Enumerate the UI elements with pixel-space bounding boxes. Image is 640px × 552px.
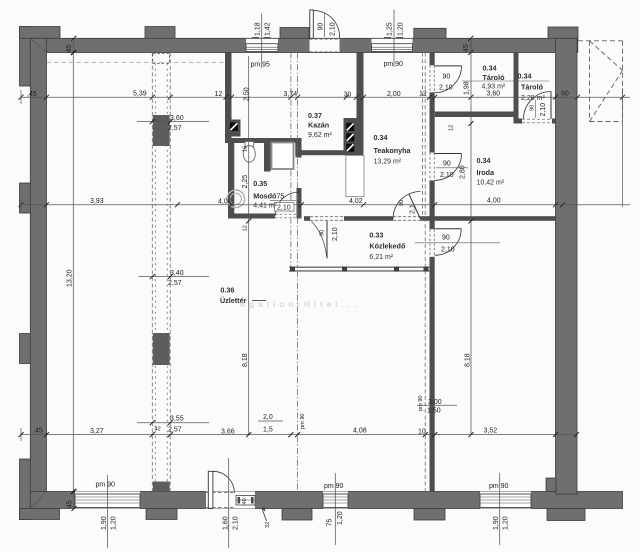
wall mosdo right lower <box>297 188 302 219</box>
partition wall x430 segment2 <box>430 92 435 152</box>
window pm90 top wall <box>372 39 413 52</box>
svg-text:45: 45 <box>463 44 470 52</box>
svg-text:Tároló: Tároló <box>521 83 544 92</box>
svg-text:42: 42 <box>155 427 161 433</box>
svg-text:1,20: 1,20 <box>398 22 405 36</box>
svg-text:13,29 m²: 13,29 m² <box>374 159 402 166</box>
corner miter top-left <box>30 38 46 52</box>
room label teakonyha <box>374 133 412 166</box>
svg-text:90: 90 <box>530 105 536 111</box>
window A bottom wall <box>75 492 140 509</box>
svg-text:2,10: 2,10 <box>233 516 240 530</box>
door tarolo2 leaf <box>550 92 552 120</box>
door teakonyha labels rotated <box>399 200 417 214</box>
svg-text:32: 32 <box>265 522 271 528</box>
svg-text:pm 90: pm 90 <box>300 413 306 429</box>
svg-text:Tároló: Tároló <box>483 73 506 82</box>
svg-text:2,10: 2,10 <box>440 172 454 179</box>
window C centerline and labels <box>489 473 510 545</box>
door entrance arc <box>213 471 235 493</box>
svg-text:4,93 m²: 4,93 m² <box>482 84 506 91</box>
svg-text:1,20: 1,20 <box>111 516 118 530</box>
door kozlekedo labels rotated <box>320 227 340 241</box>
svg-text:1,20: 1,20 <box>337 511 344 525</box>
grid column filled bottom <box>153 482 170 492</box>
door kazan labels rotated <box>318 13 337 37</box>
door kazan exterior leaf <box>310 10 314 38</box>
door mosdo arc <box>276 192 300 216</box>
wall top exterior <box>30 38 578 52</box>
pilaster top pier3 <box>414 28 446 39</box>
door iroda arc <box>435 154 462 181</box>
door tarolo2 arc <box>524 92 552 120</box>
svg-text:3,66: 3,66 <box>221 429 235 436</box>
door tarolo1 arc <box>435 66 462 93</box>
svg-text:1,18: 1,18 <box>255 22 262 36</box>
ticks on y204.7 <box>19 202 566 207</box>
entrance opening bottom wall <box>206 492 236 509</box>
washbasin <box>227 190 245 208</box>
svg-text:9,62 m²: 9,62 m² <box>308 132 332 139</box>
wall bottom exterior <box>30 492 622 509</box>
vertical dim 8,18 right <box>465 38 474 437</box>
svg-text:90: 90 <box>318 23 325 31</box>
wall left exterior <box>30 38 46 508</box>
pilaster bottom right <box>547 509 585 521</box>
svg-text:90: 90 <box>443 74 451 81</box>
svg-text:8,18: 8,18 <box>465 353 472 367</box>
svg-text:0.34: 0.34 <box>518 72 532 81</box>
shower tray <box>272 143 294 170</box>
svg-text:2,57: 2,57 <box>168 125 182 132</box>
window A centerline and labels <box>96 475 118 548</box>
svg-text:2,57: 2,57 <box>168 426 182 433</box>
svg-text:4,00: 4,00 <box>487 198 501 205</box>
window pm95 top wall <box>246 39 278 52</box>
svg-text:2,50: 2,50 <box>244 87 251 101</box>
extension verticals bottom line <box>20 428 22 441</box>
dim texts top line <box>27 91 569 99</box>
kitchen counter <box>346 156 364 197</box>
pilaster top pier2 <box>280 28 309 39</box>
svg-text:0.35: 0.35 <box>253 179 267 188</box>
svg-text:2,25: 2,25 <box>242 175 249 189</box>
svg-text:13,20: 13,20 <box>67 269 74 287</box>
room label uzletter <box>220 286 266 306</box>
entry step arrow 32 <box>262 507 271 528</box>
window pm90 top centerline and labels <box>384 10 405 69</box>
svg-text:8,18: 8,18 <box>242 353 249 367</box>
door gap teakonyha <box>393 216 421 221</box>
pilaster bottom mid3 <box>414 509 445 521</box>
door teakonyha leaf <box>409 194 421 219</box>
svg-text:0.34: 0.34 <box>483 64 497 73</box>
svg-text:75: 75 <box>277 194 285 201</box>
door mosdo labels <box>270 194 296 212</box>
svg-text:45: 45 <box>66 45 73 53</box>
grid dashed band left x152-170 <box>152 53 170 492</box>
svg-text:12: 12 <box>449 125 455 131</box>
svg-text:3,27: 3,27 <box>90 428 104 435</box>
grid column dashed outline top <box>153 54 170 64</box>
partition wall x430 segment1 <box>430 53 435 66</box>
wall mosdo bottom <box>228 214 275 219</box>
svg-text:90: 90 <box>443 160 451 167</box>
svg-text:0.37: 0.37 <box>308 111 322 120</box>
svg-text:3,60: 3,60 <box>170 115 184 122</box>
wall mosdo right stub <box>296 138 302 158</box>
door kozlekedo leaf <box>326 221 328 259</box>
wall tarolo2 bottom <box>514 119 556 124</box>
dim pair 3,60/2,57 upper <box>137 115 209 132</box>
door tarolo1 gap <box>430 65 435 92</box>
door tarolo1 leaf <box>435 65 462 67</box>
svg-text:2,0: 2,0 <box>263 414 273 421</box>
wall tarolo2 left <box>514 53 519 124</box>
room label kozlekedo <box>369 231 406 262</box>
door corridor gap <box>430 229 435 256</box>
svg-text:0.33: 0.33 <box>369 231 383 240</box>
svg-text:1,42: 1,42 <box>265 22 272 36</box>
wall kazan left <box>225 53 232 144</box>
dim pair 3,00/1,50 partition <box>417 395 457 414</box>
window pm95 centerline and labels <box>251 14 272 69</box>
svg-text:2,28 m²: 2,28 m² <box>521 95 545 102</box>
grid dashdot pair x291 x297.5 <box>291 53 298 492</box>
door opening kazan exterior <box>310 39 340 52</box>
svg-text:75: 75 <box>327 519 334 527</box>
pilaster left mid2 <box>20 334 31 364</box>
window B bottom wall <box>323 492 348 509</box>
pilaster left mid1 <box>20 183 31 213</box>
partition wall x430 segment3 <box>430 181 435 230</box>
svg-text:3,74: 3,74 <box>284 91 298 98</box>
svg-text:2,1: 2,1 <box>410 204 417 214</box>
svg-text:1,50: 1,50 <box>427 407 441 414</box>
svg-text:pm 90: pm 90 <box>324 483 344 490</box>
door gap kozlekedo-uzletter <box>310 216 344 221</box>
svg-text:90: 90 <box>442 234 450 241</box>
entrance door centerline and labels <box>223 458 249 548</box>
wall right exterior <box>556 38 578 494</box>
svg-text:10: 10 <box>418 429 426 436</box>
svg-text:1,90: 1,90 <box>101 516 108 530</box>
svg-text:2,10: 2,10 <box>540 103 547 117</box>
svg-text:0.34: 0.34 <box>374 133 388 142</box>
svg-text:pm 90: pm 90 <box>418 395 424 411</box>
svg-text:2,57: 2,57 <box>168 280 182 287</box>
pilaster bottom mid1 <box>146 509 177 520</box>
svg-text:90: 90 <box>320 230 326 236</box>
svg-text:12: 12 <box>215 91 223 98</box>
dim texts bottom line <box>33 427 497 435</box>
door corridor arc <box>435 229 462 256</box>
wall shower stub <box>264 143 271 172</box>
room label iroda <box>477 156 505 187</box>
wall mosdo top <box>225 138 302 143</box>
svg-text:2,10: 2,10 <box>439 85 453 92</box>
door tarolo2 labels rotated <box>530 100 548 118</box>
svg-text:90: 90 <box>399 200 405 206</box>
svg-text:1,60: 1,60 <box>223 516 230 530</box>
wall kozlekedo top <box>304 216 556 221</box>
door iroda gap <box>430 153 435 181</box>
flue B square <box>230 123 238 131</box>
svg-text:,45: ,45 <box>27 91 37 98</box>
extension verticals y97 ends <box>21 88 623 207</box>
door iroda leaf <box>435 153 462 155</box>
wall mosdo left <box>228 143 234 219</box>
window C bottom wall <box>480 492 531 509</box>
door corridor leaf <box>435 228 462 230</box>
svg-text:2,10: 2,10 <box>441 247 455 254</box>
dim 45 wall left rotated <box>66 36 76 55</box>
wall right step notch <box>546 478 556 492</box>
svg-text:pm 95: pm 95 <box>251 62 271 69</box>
svg-text:60: 60 <box>561 91 569 98</box>
vertical dim 13,20 <box>67 50 76 494</box>
dashed beam line top-left <box>47 61 226 63</box>
ticks on y97 <box>19 95 626 100</box>
dim 45 wall bottom-left rotated <box>67 489 77 511</box>
svg-text:pm 90: pm 90 <box>96 482 116 489</box>
svg-text:0.34: 0.34 <box>477 156 491 165</box>
svg-text:5,39: 5,39 <box>133 91 147 98</box>
grid column filled 1 <box>153 115 170 146</box>
svg-text:Teakonyha: Teakonyha <box>374 146 412 155</box>
svg-text:1,98: 1,98 <box>464 81 471 95</box>
wall kazan bottom jog vertical <box>295 143 300 155</box>
door mosdo gap <box>275 214 297 219</box>
door gap tarolo2 bottom <box>522 119 552 124</box>
wall tarolo1 bottom <box>435 112 518 118</box>
svg-text:,45: ,45 <box>33 428 43 435</box>
dimension line top y97 <box>21 96 630 98</box>
svg-text:1,5: 1,5 <box>263 426 273 433</box>
svg-text:2,80: 2,80 <box>460 165 467 179</box>
svg-text:1,20: 1,20 <box>503 516 510 530</box>
svg-text:2,10: 2,10 <box>330 22 337 36</box>
svg-text:3,40: 3,40 <box>170 270 184 277</box>
window B centerline and labels <box>324 473 344 545</box>
svg-text:16: 16 <box>243 146 249 152</box>
dashed line along partition <box>423 53 426 492</box>
svg-text:1,25: 1,25 <box>387 22 394 36</box>
svg-text:Közlekedő: Közlekedő <box>369 242 406 251</box>
svg-text:40: 40 <box>242 498 248 504</box>
svg-text:1,90: 1,90 <box>493 516 500 530</box>
svg-text:0.36: 0.36 <box>220 286 234 295</box>
door corridor labels <box>415 234 500 253</box>
svg-text:2,10: 2,10 <box>332 227 339 241</box>
svg-text:pm 90: pm 90 <box>384 61 404 68</box>
pilaster bottom mid2 <box>282 509 312 521</box>
svg-text:3,52: 3,52 <box>484 427 498 434</box>
svg-text:12: 12 <box>243 225 249 231</box>
dim texts mid line <box>90 198 501 206</box>
room label mosdo <box>253 179 277 210</box>
svg-text:10,42 m²: 10,42 m² <box>477 180 505 187</box>
svg-text:3,00: 3,00 <box>428 399 442 406</box>
svg-text:Mosdó: Mosdó <box>253 192 277 201</box>
svg-text:12: 12 <box>419 91 427 98</box>
room label kazan <box>308 111 332 139</box>
door iroda labels <box>436 160 468 179</box>
wall kazan bottom <box>300 150 347 155</box>
dim pair 3,40/2,57 mid <box>139 270 209 287</box>
grid column filled 2 <box>153 333 170 365</box>
dimension line mid y204.7 <box>21 204 630 206</box>
pilaster top-right corner <box>548 27 578 39</box>
svg-text:Iroda: Iroda <box>477 168 496 177</box>
svg-text:30: 30 <box>344 92 352 99</box>
svg-text:3,60: 3,60 <box>487 91 501 98</box>
svg-text:pm 90: pm 90 <box>489 483 509 490</box>
flue block A <box>344 118 357 155</box>
dim pair 2,0/1,5 <box>258 414 283 434</box>
svg-text:4,08: 4,08 <box>353 427 367 434</box>
pilaster top-left corner L <box>20 27 61 87</box>
svg-text:6,21 m²: 6,21 m² <box>369 254 393 261</box>
door entrance leaf <box>208 471 213 508</box>
door kazan exterior arc <box>313 10 339 38</box>
door tarolo1 labels <box>439 74 549 92</box>
svg-text:ngation-Hitel...: ngation-Hitel... <box>240 299 360 309</box>
corner miter bottom-left <box>30 492 46 509</box>
room label tarolo2 <box>518 72 546 103</box>
flue A squares <box>346 123 354 152</box>
vertical dim 8,18 left <box>242 56 251 437</box>
toilet <box>243 142 255 163</box>
svg-text:3,55: 3,55 <box>170 416 184 423</box>
svg-text:Kazán: Kazán <box>308 121 329 130</box>
svg-text:4,02: 4,02 <box>349 198 363 205</box>
svg-text:2,10: 2,10 <box>277 205 291 212</box>
ticks on y434.6 <box>19 432 580 437</box>
svg-text:4,41 m²: 4,41 m² <box>253 203 277 210</box>
room label tarolo1 <box>482 64 506 98</box>
dim pair 3,55/2,57 lower <box>137 416 209 434</box>
door kozlekedo arc <box>312 222 327 257</box>
glazed partition uzletter-kozlekedo <box>289 267 431 272</box>
svg-text:4,00: 4,00 <box>218 199 232 206</box>
svg-text:2,00: 2,00 <box>387 91 401 98</box>
dimension line bottom y434.6 <box>21 434 577 436</box>
partition wall x430 segment4 <box>430 257 435 492</box>
pilaster top mid <box>145 27 175 39</box>
pilaster bottom-left corner L <box>20 459 60 520</box>
svg-text:45: 45 <box>67 500 74 508</box>
svg-text:3,93: 3,93 <box>90 198 104 205</box>
wall kazan-teakonyha <box>357 53 364 156</box>
left extension of mid line <box>20 198 22 211</box>
neighbour dashed outline top-right <box>578 41 623 122</box>
door teakonyha arc <box>393 192 421 220</box>
flue block B <box>227 120 241 137</box>
dim 45 wall x470 rotated <box>463 36 473 55</box>
entrance sidelight <box>236 492 255 509</box>
